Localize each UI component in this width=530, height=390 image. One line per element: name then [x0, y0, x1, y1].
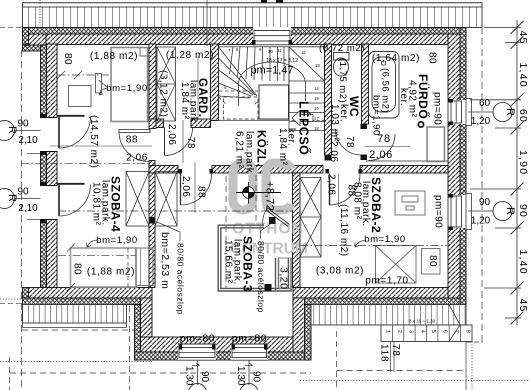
svg-text:90: 90 — [479, 197, 491, 208]
hall south wall segment A — [149, 166, 178, 174]
svg-text:60: 60 — [479, 98, 491, 109]
svg-text:80: 80 — [62, 53, 73, 65]
southwest terrace deck — [23, 305, 127, 328]
room texts rotated — [62, 52, 444, 315]
svg-text:1,03 m²: 1,03 m² — [329, 104, 340, 142]
right dimension labels — [517, 31, 529, 313]
leader bm=1,90 SZOBA-2 — [355, 240, 366, 247]
SE stair dimension labels — [379, 344, 402, 362]
stair down arrow — [292, 111, 313, 126]
svg-text:bm=1,90: bm=1,90 — [371, 95, 382, 136]
svg-text:3: 3 — [407, 330, 413, 333]
SZOBA-2 north wall segment — [360, 166, 448, 174]
svg-text:88: 88 — [196, 186, 207, 198]
winder treads top row — [230, 47, 234, 74]
partition wall east of SZOBA-4 lower — [149, 161, 155, 288]
right window callout SZOBA-2 — [468, 197, 516, 227]
top exterior wall insulation band — [23, 28, 467, 35]
svg-text:1,30: 1,30 — [235, 366, 246, 386]
east bottom exterior wall under SZOBA-2 — [293, 288, 466, 305]
door hall to lower hall — [179, 169, 214, 205]
svg-text:90: 90 — [199, 371, 210, 383]
watermark logo OC — [233, 163, 291, 210]
svg-text:90: 90 — [517, 204, 529, 218]
svg-text:118: 118 — [379, 344, 390, 362]
svg-text:90: 90 — [17, 119, 29, 130]
svg-text:(1,88 m2): (1,88 m2) — [90, 51, 138, 62]
window right wall FURDO 60/120 — [448, 99, 472, 126]
svg-text:bm=1,90: bm=1,90 — [364, 234, 405, 245]
bottom window callout 2 — [235, 360, 262, 390]
svg-text:(3,12 m2): (3,12 m2) — [158, 70, 169, 117]
left exterior wall core — [47, 44, 58, 288]
left door callout 2 — [0, 187, 41, 215]
svg-text:8 x 16 = 1,30: 8 x 16 = 1,30 — [409, 319, 436, 324]
svg-text:2,06: 2,06 — [166, 124, 177, 145]
svg-text:10,81 m²: 10,81 m² — [91, 182, 102, 226]
southeast exterior stair numbered steps — [381, 305, 472, 342]
svg-text:R: R — [6, 126, 18, 134]
bathtub FURDO — [369, 52, 400, 119]
window south wall 1 — [178, 344, 216, 366]
toilet WC — [334, 53, 350, 77]
svg-text:4: 4 — [419, 330, 425, 333]
leader acelopszlop 1 — [157, 222, 180, 241]
svg-text:(14,57 m2): (14,57 m2) — [88, 115, 99, 168]
wardrobe hall side of wall — [155, 172, 177, 227]
svg-text:bm=2,53 m: bm=2,53 m — [159, 232, 171, 289]
svg-text:KÖZL.: KÖZL. — [255, 130, 268, 167]
WC / FURDO partition wall — [362, 44, 369, 124]
door GARD to hall — [165, 128, 193, 156]
svg-text:2,06: 2,06 — [369, 149, 393, 161]
svg-text:8: 8 — [464, 330, 470, 333]
shelf right of niche — [136, 248, 153, 286]
top-left wall stub — [23, 28, 47, 52]
svg-text:2: 2 — [396, 330, 402, 333]
svg-text:(11,16 m2): (11,16 m2) — [338, 204, 349, 257]
svg-text:+8,72: +8,72 — [264, 181, 276, 211]
partition stub above SZOBA-4 east door — [149, 119, 156, 129]
svg-text:80: 80 — [427, 255, 438, 267]
svg-text:80/80 acéloszlop: 80/80 acéloszlop — [176, 243, 186, 315]
svg-text:pm=90: pm=90 — [432, 92, 443, 125]
door FURDO — [365, 134, 411, 161]
staircase LEPCSO main box — [219, 47, 325, 133]
svg-text:(1,75 m2): (1,75 m2) — [337, 58, 348, 103]
svg-text:6: 6 — [442, 330, 448, 333]
svg-text:1,20: 1,20 — [471, 216, 491, 227]
washbasin FURDO — [418, 122, 444, 162]
svg-text:78: 78 — [390, 344, 401, 357]
svg-text:60: 60 — [517, 109, 529, 123]
svg-text:1,84 m²: 1,84 m² — [179, 82, 190, 120]
west bottom exterior wall — [23, 288, 153, 305]
SZOBA-2 west wall — [293, 173, 301, 288]
wardrobe SZOBA-2 — [300, 178, 321, 258]
table SZOBA-2 — [422, 249, 441, 275]
wardrobe GARD — [157, 47, 176, 121]
svg-text:R: R — [504, 207, 516, 215]
svg-text:pm=1,47: pm=1,47 — [250, 65, 293, 77]
svg-text:5: 5 — [430, 330, 436, 333]
hall south wall segment B — [212, 166, 323, 174]
roof overhang band top — [23, 3, 483, 28]
wardrobe SZOBA-4 side of wall — [126, 172, 149, 227]
south bottom exterior wall of SZOBA-3 — [135, 337, 312, 360]
svg-text:1,40: 1,40 — [517, 250, 529, 275]
svg-text:2,06: 2,06 — [126, 153, 148, 164]
GARD door dim ext line — [182, 120, 184, 163]
svg-text:(1,28 m2): (1,28 m2) — [166, 50, 214, 61]
stair step numbers — [224, 47, 320, 131]
svg-text:2,06: 2,06 — [326, 174, 337, 195]
svg-text:3,20: 3,20 — [278, 267, 290, 289]
steel column NE of SZOBA-3 — [269, 217, 276, 224]
corridor threshold line — [366, 160, 448, 162]
svg-text:10: 10 — [268, 49, 273, 54]
svg-text:pm=1,70: pm=1,70 — [365, 276, 408, 287]
svg-text:11: 11 — [277, 48, 282, 53]
window south wall 2 — [231, 344, 268, 366]
stair dashed opening — [224, 97, 259, 119]
svg-text:18: 18 — [314, 126, 319, 131]
svg-text:(1,64 m2): (1,64 m2) — [372, 53, 420, 64]
svg-text:1,30: 1,30 — [184, 366, 195, 386]
svg-text:2,10: 2,10 — [18, 203, 38, 214]
svg-text:88: 88 — [346, 185, 357, 197]
svg-text:pm=90: pm=90 — [433, 195, 444, 228]
steel column NW at hall wall — [150, 217, 156, 224]
svg-text:17: 17 — [314, 116, 319, 121]
svg-text:13: 13 — [315, 63, 320, 68]
winder fan left — [219, 47, 258, 96]
bottom window callout 1 — [184, 360, 211, 390]
svg-text:1: 1 — [385, 330, 391, 333]
southwest corner wall going down — [135, 298, 153, 360]
right exterior wall insulation — [460, 28, 466, 305]
svg-text:R: R — [504, 108, 516, 116]
partition wall GARD / stair — [211, 44, 219, 121]
right flight treads — [289, 47, 325, 81]
svg-text:bm=1,90: bm=1,90 — [96, 235, 137, 246]
svg-text:45: 45 — [517, 31, 529, 45]
door opening left wall lower — [40, 182, 91, 223]
southeast exterior stair upper band — [311, 305, 466, 326]
stair / WC partition wall — [325, 44, 332, 155]
svg-text:LÉPCSŐ: LÉPCSŐ — [297, 101, 312, 155]
desk SZOBA-2 — [395, 191, 425, 215]
walking line — [239, 62, 306, 106]
svg-text:15: 15 — [314, 96, 319, 101]
svg-text:78: 78 — [344, 136, 355, 148]
door WC — [336, 129, 362, 155]
top edge tick marks — [261, 0, 267, 3]
right dimension chain — [470, 20, 524, 325]
GARD rod line — [197, 56, 199, 119]
svg-text:16: 16 — [314, 106, 319, 111]
svg-text:(3,08 m2): (3,08 m2) — [316, 266, 364, 277]
southeast corner wall going down — [293, 298, 311, 360]
svg-text:1,20: 1,20 — [471, 116, 491, 127]
svg-text:78: 78 — [185, 137, 196, 149]
SZOBA-3 entry door leaf — [263, 208, 290, 227]
svg-text:(0,72 m2): (0,72 m2) — [319, 43, 365, 54]
svg-text:2,06: 2,06 — [328, 141, 339, 162]
partition wall SZOBA-4 / GARD — [149, 44, 156, 119]
svg-text:14: 14 — [314, 86, 319, 91]
top exterior wall core — [29, 34, 461, 45]
bed SZOBA-2 — [376, 246, 417, 284]
GARD south wall segment left — [156, 119, 164, 128]
svg-text:45: 45 — [517, 299, 529, 313]
door opening left wall upper — [40, 114, 91, 155]
svg-text:6,21 m²: 6,21 m² — [234, 131, 245, 169]
right exterior wall core — [448, 34, 460, 298]
svg-text:90: 90 — [17, 187, 29, 198]
svg-text:OTTHON: OTTHON — [232, 221, 303, 238]
nightstand SZOBA-4 — [96, 74, 108, 94]
room texts horizontal — [87, 43, 420, 345]
svg-text:88: 88 — [126, 135, 138, 146]
svg-text:ker.: ker. — [398, 88, 409, 106]
svg-text:80: 80 — [72, 263, 83, 275]
svg-text:15,66 m²: 15,66 m² — [223, 240, 234, 284]
steel column SE of SZOBA-3 — [265, 284, 272, 291]
SZOBA-3 room outline — [218, 225, 291, 291]
svg-text:pm=80: pm=80 — [180, 333, 215, 345]
level mark +8,72 — [236, 182, 281, 204]
door hall to SZOBA-4 — [119, 130, 150, 162]
leader bm=1,90 SZOBA-4 — [99, 88, 107, 95]
svg-text:80/80 acéloszlop: 80/80 acéloszlop — [256, 241, 266, 313]
bed SZOBA-4 — [111, 48, 148, 122]
svg-text:pm=80: pm=80 — [232, 333, 267, 345]
window right wall SZOBA-2 90/120 — [448, 194, 472, 231]
left door callout 1 — [0, 119, 41, 147]
svg-text:1,40: 1,40 — [517, 63, 529, 88]
side table SZOBA-4 — [69, 86, 92, 107]
svg-text:bm=1,90: bm=1,90 — [106, 83, 147, 94]
GARD south wall segment right — [191, 119, 211, 128]
svg-text:80: 80 — [427, 52, 438, 64]
window top wall above stair — [252, 27, 292, 45]
leader acelopszlop 2 — [261, 223, 273, 239]
leader bm=1,90 niche — [87, 240, 99, 247]
right window callout FURDO — [468, 98, 516, 127]
svg-text:R: R — [6, 194, 18, 202]
svg-text:18 x 17 = 3,12: 18 x 17 = 3,12 — [266, 58, 298, 64]
stair landing void — [259, 85, 289, 119]
door SZOBA-2 — [326, 169, 363, 207]
svg-text:2,10: 2,10 — [18, 135, 38, 146]
svg-text:12: 12 — [301, 50, 306, 55]
svg-text:(1,88 m2): (1,88 m2) — [87, 267, 135, 278]
lower niche SZOBA-4 — [71, 248, 137, 287]
svg-text:2,06: 2,06 — [180, 176, 191, 197]
svg-text:1,84 m²: 1,84 m² — [277, 128, 288, 166]
svg-text:90: 90 — [251, 371, 262, 383]
left exterior wall insulation — [41, 45, 47, 288]
svg-text:1,90: 1,90 — [517, 150, 529, 175]
